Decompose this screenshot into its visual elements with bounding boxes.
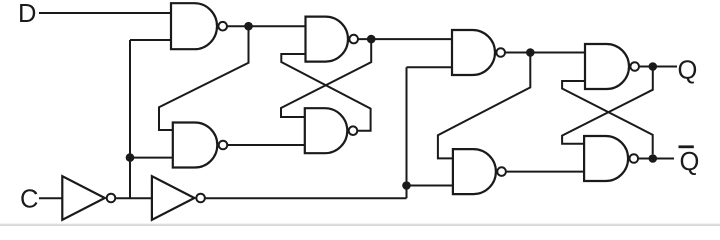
NAND gate G5 xyxy=(452,30,505,75)
svg-text:C: C xyxy=(20,186,38,214)
NAND gate G6 xyxy=(453,149,506,194)
svg-text:D: D xyxy=(18,0,36,28)
wire inverted-clock vertical rail xyxy=(129,40,131,198)
wire clock to G5 pin 2 xyxy=(407,66,453,68)
wire G4 output to G3 pin 2 xyxy=(281,54,370,131)
wire G8 output to Q-bar xyxy=(638,158,674,160)
junction inverted clock to G2 xyxy=(126,153,135,162)
wire C input to INV1 xyxy=(39,197,62,199)
wire G1 pin 2 from inverted clock xyxy=(130,39,171,41)
NAND gate G7 xyxy=(585,44,639,89)
wire G1 output to G3 pin 1 xyxy=(227,25,306,27)
junction clock rail to G6 xyxy=(402,181,411,190)
wire G2 output to G4 pin 2 xyxy=(227,144,304,146)
wire clock to G6 pin 2 xyxy=(407,185,453,187)
NAND gate G4 xyxy=(305,108,358,153)
junction G5 output xyxy=(526,48,535,57)
NAND gate G1 xyxy=(171,3,227,49)
junction G7 output Q node xyxy=(649,62,658,71)
Q-bar overline xyxy=(679,145,694,148)
inverter INV1 xyxy=(62,176,115,220)
wire to G2 pin 2 xyxy=(130,157,173,159)
wire clock rail vertical xyxy=(406,67,408,198)
wire INV2 output clock run xyxy=(205,197,407,199)
NAND gate G3 xyxy=(306,17,359,62)
svg-text:Q: Q xyxy=(678,56,698,84)
wire G7 output to Q xyxy=(639,66,677,68)
junction G1 output xyxy=(244,22,253,31)
wire G5 output to G7 pin 1 xyxy=(505,52,585,54)
wire G3 output to G5 pin 1 xyxy=(358,38,452,40)
svg-text:Q: Q xyxy=(680,148,700,176)
wire G5 output to G6 pin 1 xyxy=(438,53,530,159)
wire INV1 output to INV2 xyxy=(115,197,152,199)
inverter INV2 xyxy=(152,176,205,220)
junction G8 output Q-bar node xyxy=(649,154,658,163)
wire G7 output to G8 pin 1 xyxy=(562,67,653,144)
NAND gate G2 xyxy=(173,123,228,168)
wire G3 output to G4 pin 1 xyxy=(281,39,371,117)
wire G6 output to G8 pin 2 xyxy=(506,171,584,173)
bottom separator rule xyxy=(0,224,720,226)
wire G1 output to G2 pin 1 xyxy=(159,26,249,130)
wire G8 output to G7 pin 2 xyxy=(562,81,653,154)
wire D input to G1 pin 1 xyxy=(39,12,171,14)
junction G3 output xyxy=(367,35,376,44)
NAND gate G8 xyxy=(584,136,638,181)
